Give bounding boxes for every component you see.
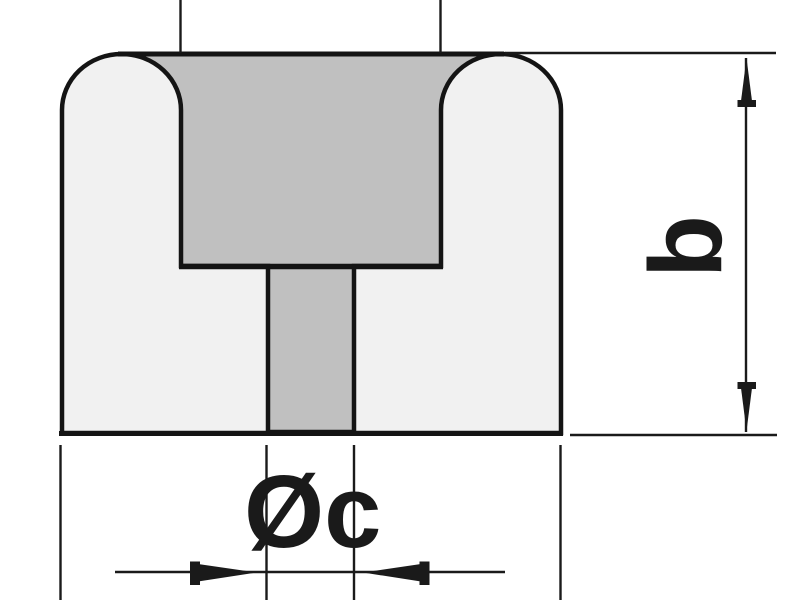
metal insert (dark grey) with stem [122, 54, 502, 432]
arrowhead b bottom (wedge) [741, 388, 752, 431]
extension line below stem left [265, 445, 267, 600]
arrowhead b bottom foot bar [738, 382, 757, 389]
arrowhead b top (wedge) [741, 58, 752, 101]
bottom edge re-stroke [59, 431, 563, 436]
dimension line c [115, 571, 505, 573]
extension line top left (x=180) [179, 0, 181, 53]
insert bottom edge (continuous across stem) [179, 264, 443, 270]
arrowhead c left foot bar [190, 562, 200, 586]
extension line top right (x=440) [439, 0, 441, 53]
arrowhead c left wedge (points right) [198, 564, 257, 582]
body outline (rubber buffer cross-section) [62, 54, 561, 433]
svg-text:Øc: Øc [244, 454, 381, 569]
extension line for b, top [505, 52, 776, 54]
arrowhead c right foot bar [420, 562, 430, 586]
extension line for b, bottom [570, 434, 777, 436]
extension line below stem right [353, 445, 355, 600]
arrowhead b top foot bar [738, 100, 757, 107]
dimension line b [745, 58, 747, 432]
top edge thick re-stroke [118, 52, 504, 57]
extension line below right wall [559, 445, 561, 600]
arrowhead c right wedge (points left) [363, 564, 421, 582]
extension line below left wall [59, 445, 61, 600]
svg-text:b: b [628, 215, 743, 278]
